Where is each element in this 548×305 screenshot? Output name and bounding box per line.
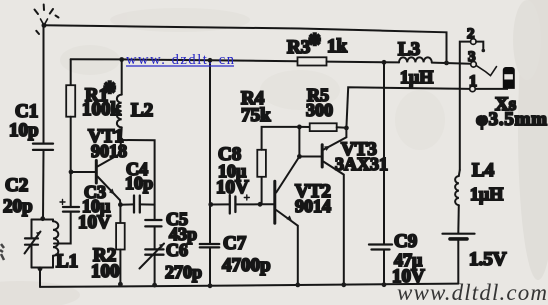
node C6 ground: [152, 283, 157, 288]
svg-text:1μH: 1μH: [400, 67, 433, 87]
node VT3 emitter / R5: [344, 126, 349, 131]
scan smudges (decorative): [0, 244, 4, 260]
svg-text:C9: C9: [394, 231, 417, 252]
node tank top: [40, 216, 45, 221]
svg-text:www.dltdl.com: www.dltdl.com: [397, 280, 547, 305]
svg-text:L3: L3: [398, 39, 420, 60]
wire tank bottom: [32, 267, 54, 269]
wire C7 line: [209, 60, 211, 243]
node VT1 base: [69, 170, 74, 175]
svg-text:75k: 75k: [241, 105, 271, 126]
svg-text:300: 300: [306, 100, 333, 120]
svg-text:C7: C7: [223, 233, 247, 254]
svg-text:1k: 1k: [327, 36, 348, 57]
node VT1 emitter: [118, 202, 123, 207]
svg-text:L1: L1: [56, 251, 78, 272]
svg-text:1μH: 1μH: [470, 184, 503, 204]
node R2 ground: [118, 282, 123, 287]
node C9 ground: [382, 282, 387, 287]
capacitor C8: [211, 195, 260, 214]
transistor VT3: [322, 128, 346, 285]
wire top rail: [44, 25, 447, 63]
wire antenna drop: [43, 25, 45, 143]
svg-text:3: 3: [468, 49, 476, 65]
svg-text:L2: L2: [131, 100, 153, 121]
capacitor C5: [145, 220, 161, 249]
node C9 top: [382, 60, 387, 65]
svg-text:4700p: 4700p: [222, 255, 271, 276]
battery 1.5V: [443, 234, 475, 284]
capacitor C7: [200, 244, 219, 286]
svg-text:9014: 9014: [295, 196, 331, 216]
svg-text:1.5V: 1.5V: [469, 249, 507, 270]
jack Xs pin 2: [460, 39, 485, 170]
node VT2 collector: [297, 154, 302, 159]
svg-text:φ3.5mm: φ3.5mm: [476, 109, 547, 130]
capacitor C2 (variable): [25, 220, 41, 268]
resistor R4: [257, 127, 299, 204]
node tank bottom: [38, 266, 43, 271]
wire to VT3 base: [299, 156, 321, 158]
svg-text:※: ※: [103, 80, 116, 97]
svg-text:3AX31: 3AX31: [335, 154, 388, 174]
node supply/C7 line top: [208, 58, 213, 63]
svg-text:R3: R3: [287, 37, 310, 58]
inductor L1: [53, 220, 58, 268]
node R4 bottom: [258, 202, 263, 207]
inductor L2: [117, 57, 124, 139]
wire emitter riser to earphone pin1: [346, 87, 469, 128]
node VT1 collector / L2 bottom: [119, 137, 124, 142]
wire base: [71, 171, 96, 173]
svg-text:1: 1: [469, 73, 477, 90]
svg-text:L4: L4: [472, 160, 495, 181]
capacitor C6 (variable): [140, 244, 165, 286]
node C7 ground: [208, 283, 213, 288]
svg-text:C2: C2: [5, 175, 28, 196]
wire C1 to tank: [42, 151, 45, 220]
node C8 tap: [208, 202, 213, 207]
resistor R1: [66, 59, 75, 171]
wire supply rail (2nd rail): [71, 59, 298, 61]
antenna: [35, 5, 59, 35]
svg-text:※: ※: [308, 32, 321, 49]
wire collector to R4/R5 node: [298, 127, 300, 157]
resistor R3: [298, 57, 385, 65]
resistor R5: [299, 123, 346, 131]
svg-text:10V: 10V: [78, 212, 111, 233]
watermark www.dzdlt.cn: [126, 52, 235, 68]
wire to VT2 base: [260, 203, 274, 205]
wire bottom rail: [40, 284, 458, 287]
jack Xs pin 1: [470, 86, 507, 92]
svg-text:9018: 9018: [91, 141, 127, 161]
transistor VT2: [275, 157, 300, 285]
jack Xs pin 3: [471, 62, 497, 76]
node R4/R5: [297, 125, 302, 130]
node VT3 collector ground: [341, 282, 346, 287]
svg-text:100k: 100k: [82, 99, 122, 120]
wire tank top: [32, 219, 54, 221]
svg-text:100: 100: [91, 261, 120, 282]
svg-text:10p: 10p: [125, 173, 153, 193]
inductor L3: [384, 57, 471, 63]
wire tank drop to ground rail: [39, 268, 41, 287]
node VT2 emitter ground: [295, 283, 300, 288]
svg-text:C6: C6: [166, 240, 188, 260]
capacitor C4: [120, 196, 154, 213]
svg-text:10p: 10p: [9, 120, 39, 141]
capacitor C1: [33, 144, 53, 150]
svg-text:C1: C1: [15, 101, 38, 122]
svg-text:2: 2: [467, 26, 475, 42]
svg-text:270p: 270p: [165, 262, 202, 282]
svg-text:10V: 10V: [216, 177, 249, 198]
capacitor C9: [369, 62, 392, 284]
inductor L4: [455, 170, 460, 233]
capacitor C3: [54, 172, 79, 244]
transistor VT1: [96, 140, 121, 205]
wire collector branch: [121, 140, 155, 219]
resistor R2: [116, 205, 125, 285]
node top rail to pin3 wire: [444, 61, 449, 66]
earphone plug: [503, 67, 515, 89]
svg-text:20p: 20p: [3, 196, 33, 217]
